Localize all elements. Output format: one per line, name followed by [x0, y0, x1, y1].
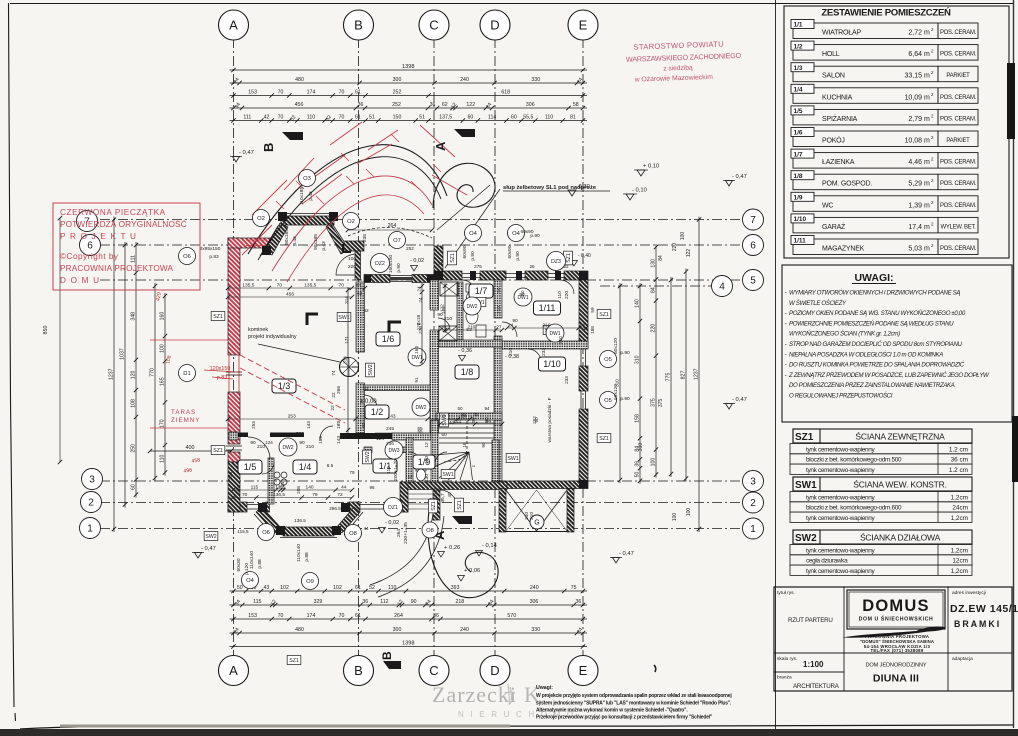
svg-text:330: 330	[531, 77, 540, 83]
door swing arcs interior	[320, 426, 333, 439]
svg-text:300: 300	[393, 77, 402, 83]
svg-text:498: 498	[183, 467, 193, 474]
svg-text:p.90: p.90	[470, 251, 476, 261]
svg-text:C: C	[429, 18, 438, 33]
svg-text:tynk cementowo-wapienny: tynk cementowo-wapienny	[806, 494, 876, 501]
wall tag SZ1 left upper	[211, 312, 225, 321]
grid axis dash-dot vertical lines	[233, 38, 235, 658]
svg-text:62: 62	[442, 102, 448, 108]
walls around wiatrolap	[406, 438, 413, 482]
svg-text:206: 206	[228, 472, 234, 480]
svg-text:6: 6	[750, 241, 756, 252]
toilet in wc 1/9	[416, 466, 426, 471]
svg-text:24cm: 24cm	[952, 505, 968, 512]
svg-text:5,29: 5,29	[908, 181, 922, 188]
svg-text:B: B	[261, 143, 276, 152]
left horizontal small dims	[150, 450, 231, 452]
svg-text:warstwa posadzki - F: warstwa posadzki - F	[547, 397, 553, 442]
svg-text:- 0,14: - 0,14	[482, 543, 498, 549]
svg-text:A: A	[229, 18, 238, 33]
svg-text:122: 122	[441, 306, 446, 314]
terrace canopy second arc	[258, 157, 441, 260]
right exterior wall SZ1	[579, 280, 588, 481]
svg-text:p.120: p.120	[244, 563, 250, 575]
room row 1/9 WC	[793, 196, 938, 212]
svg-text:Uwagi:: Uwagi:	[536, 685, 553, 691]
svg-text:TARAS: TARAS	[171, 409, 196, 416]
svg-text:m: m	[924, 30, 930, 37]
svg-text:DZ3: DZ3	[551, 259, 561, 265]
svg-text:61: 61	[355, 613, 361, 619]
svg-text:- 0,02: - 0,02	[385, 520, 399, 526]
svg-text:ZIEMNY: ZIEMNY	[171, 417, 200, 424]
svg-text:102: 102	[333, 585, 342, 591]
svg-text:458: 458	[191, 457, 201, 464]
svg-text:D: D	[490, 663, 499, 678]
svg-text:240: 240	[530, 585, 539, 591]
wall tag SZ1 left lower	[211, 446, 225, 455]
svg-text:SZ1: SZ1	[450, 253, 456, 263]
window in left red top wall	[246, 239, 266, 241]
svg-text:143: 143	[388, 414, 396, 420]
svg-text:70: 70	[278, 613, 284, 619]
svg-text:DW1: DW1	[549, 331, 560, 337]
svg-text:PARKIET: PARKIET	[946, 138, 970, 144]
svg-text:210: 210	[542, 323, 550, 329]
svg-text:SZ1: SZ1	[566, 253, 572, 263]
svg-text:1,2cm: 1,2cm	[951, 515, 968, 522]
svg-text:+ 0,10: + 0,10	[643, 164, 659, 170]
svg-text:+ 0,06: + 0,06	[464, 568, 480, 574]
svg-text:SZ1: SZ1	[213, 314, 223, 320]
svg-text:5: 5	[750, 276, 756, 287]
svg-text:- 0,47: - 0,47	[239, 150, 254, 156]
svg-text:252: 252	[406, 246, 414, 251]
svg-text:100: 100	[686, 508, 692, 517]
svg-text:22: 22	[331, 392, 336, 398]
svg-text:POS. CERAM.: POS. CERAM.	[940, 95, 977, 101]
pokoj 1/6 top exterior wall	[364, 275, 390, 283]
svg-text:p.43: p.43	[308, 191, 314, 201]
svg-text:PARKIET: PARKIET	[946, 73, 970, 79]
svg-text:projekt indywidualny: projekt indywidualny	[248, 334, 297, 340]
top dim row axes	[230, 82, 588, 84]
terrace canopy red arc 1	[272, 176, 432, 271]
svg-text:35,7: 35,7	[440, 493, 446, 503]
svg-text:ŁAZIENKA: ŁAZIENKA	[822, 159, 855, 166]
svg-text:PRACOWNIA PROJEKTOWA: PRACOWNIA PROJEKTOWA	[60, 264, 174, 273]
red correction strokes over arcs	[252, 180, 287, 215]
svg-text:210: 210	[508, 348, 514, 356]
terrace canopy red arc 2	[287, 195, 424, 282]
svg-text:ŚCIANKA DZIAŁOWA: ŚCIANKA DZIAŁOWA	[860, 532, 941, 543]
svg-text:252: 252	[393, 90, 402, 96]
svg-text:75: 75	[571, 585, 577, 591]
svg-text:618: 618	[501, 90, 510, 96]
svg-text:ŚCIANA WEW. KONSTR.: ŚCIANA WEW. KONSTR.	[853, 479, 947, 490]
svg-text:266: 266	[336, 386, 342, 394]
svg-text:50: 50	[520, 290, 525, 296]
svg-text:SALON: SALON	[822, 73, 845, 80]
svg-text:- 0,36: - 0,36	[458, 348, 472, 354]
svg-text:252: 252	[532, 416, 537, 424]
svg-text:775: 775	[666, 373, 672, 382]
svg-text:188: 188	[590, 326, 595, 334]
svg-text:50: 50	[496, 287, 501, 293]
svg-text:827: 827	[681, 371, 687, 380]
svg-text:375: 375	[658, 399, 664, 408]
svg-text:SZ1: SZ1	[213, 448, 223, 454]
svg-text:1/5: 1/5	[244, 462, 257, 472]
svg-text:110: 110	[545, 115, 553, 121]
svg-text:153: 153	[248, 613, 257, 619]
svg-text:DIUNA III: DIUNA III	[873, 673, 919, 685]
interior dim rows	[228, 287, 365, 289]
svg-text:DW1: DW1	[411, 355, 422, 361]
svg-text:1/11: 1/11	[539, 303, 556, 313]
svg-text:50: 50	[635, 472, 641, 478]
svg-text:393: 393	[451, 585, 460, 591]
wall tag SW2 pokoj	[366, 363, 375, 377]
svg-text:- 0,10: - 0,10	[632, 188, 647, 194]
column curl spiral top (circular stair tower)	[433, 163, 495, 208]
kitchen top beam solid	[238, 433, 248, 438]
svg-text:200+1=20: 200+1=20	[393, 459, 399, 481]
bottom exterior wall with openings	[228, 462, 408, 512]
svg-text:33,15: 33,15	[904, 73, 922, 80]
svg-text:1/10: 1/10	[543, 359, 561, 369]
wall type table SZ1	[793, 429, 972, 443]
svg-text:1398: 1398	[402, 64, 414, 70]
svg-text:1: 1	[87, 524, 93, 535]
svg-text:590: 590	[296, 431, 304, 436]
bottom dim total 1398	[230, 646, 588, 648]
bottom dim row 2	[230, 604, 588, 606]
entry door stub and opening	[433, 489, 440, 520]
svg-text:55,5: 55,5	[523, 115, 533, 121]
svg-text:60x90: 60x90	[507, 245, 513, 258]
page border frame	[10, 3, 1014, 5]
svg-text:264: 264	[388, 223, 397, 229]
room label 1/3 salon	[272, 379, 296, 393]
svg-text:329: 329	[314, 599, 323, 605]
svg-text:O8: O8	[349, 531, 357, 537]
svg-text:114: 114	[488, 115, 496, 121]
bay window glazing lines	[260, 214, 351, 257]
svg-text:1.2 cm: 1.2 cm	[949, 467, 968, 474]
svg-text:GARAŻ: GARAŻ	[822, 222, 846, 231]
section marker B bottom	[380, 651, 401, 669]
windows O5 in right wall	[580, 348, 582, 366]
svg-text:tynk cementowo-wapienny: tynk cementowo-wapienny	[806, 467, 876, 474]
svg-text:Przekroje przewodów przyjąć po: Przekroje przewodów przyjąć po konsultac…	[536, 715, 713, 721]
red stamp box copyright pracownia	[53, 203, 200, 290]
svg-text:bloczki z bet. komórkowego-odm: bloczki z bet. komórkowego-odm.500	[806, 457, 902, 464]
staircase winder	[429, 421, 494, 480]
svg-text:RZUT PARTERU: RZUT PARTERU	[788, 617, 833, 624]
svg-text:42: 42	[363, 386, 369, 392]
svg-text:1/11: 1/11	[794, 238, 807, 245]
svg-text:24: 24	[437, 261, 443, 266]
svg-text:O2: O2	[347, 219, 355, 225]
svg-text:O8: O8	[426, 528, 434, 534]
svg-text:306: 306	[526, 102, 535, 108]
svg-text:adres inwestycji: adres inwestycji	[952, 590, 986, 596]
svg-text:DZ2: DZ2	[375, 261, 385, 267]
interior wall bathroom right SW2	[457, 282, 463, 340]
wall type table SW2	[793, 530, 972, 544]
svg-text:1/5: 1/5	[794, 108, 803, 115]
svg-text:24: 24	[461, 414, 467, 420]
svg-text:94: 94	[484, 406, 490, 411]
door bubbles DW	[408, 348, 426, 366]
svg-text:WYLEW. BET.: WYLEW. BET.	[940, 224, 976, 230]
svg-text:1.2 cm: 1.2 cm	[949, 446, 968, 453]
svg-text:122: 122	[686, 249, 692, 258]
svg-text:220: 220	[348, 264, 356, 270]
svg-text:36: 36	[635, 461, 641, 467]
interior wall corridor left SW1	[430, 280, 439, 310]
svg-text:102: 102	[280, 585, 289, 591]
svg-text:250: 250	[131, 444, 137, 453]
svg-text:POS. CERAM.: POS. CERAM.	[940, 181, 977, 187]
svg-text:D1: D1	[183, 371, 190, 377]
svg-text:218: 218	[456, 599, 465, 605]
svg-text:SZ1: SZ1	[431, 501, 437, 511]
svg-text:m: m	[924, 246, 930, 253]
svg-text:94: 94	[486, 419, 492, 425]
right dim chain 1	[639, 283, 641, 484]
svg-text:110x185: 110x185	[299, 187, 305, 205]
svg-text:210: 210	[467, 325, 475, 331]
svg-text:165: 165	[160, 377, 166, 386]
svg-text:90x185: 90x185	[284, 229, 290, 245]
svg-text:POS. CERAM.: POS. CERAM.	[940, 160, 977, 166]
svg-text:m: m	[924, 138, 930, 145]
bay corner block right	[344, 241, 364, 251]
svg-text:2: 2	[750, 498, 756, 509]
svg-text:245: 245	[386, 426, 394, 432]
svg-text:233: 233	[541, 348, 547, 356]
room schedule table ZESTAWIENIE POMIESZCZEN	[784, 6, 1009, 258]
interior wall SW1 between salon and pokoj	[356, 282, 365, 352]
svg-text:10,08: 10,08	[904, 138, 922, 145]
DOMUS logo	[847, 590, 945, 629]
svg-text:DW2: DW2	[466, 304, 477, 310]
right dim 775	[670, 277, 672, 477]
wall between spizarnia and kuchnia	[268, 458, 274, 504]
room label 1/6	[376, 332, 400, 346]
svg-text:- 0,40: - 0,40	[578, 253, 591, 259]
svg-text:22: 22	[563, 264, 569, 269]
svg-text:40: 40	[447, 492, 453, 498]
svg-text:115.5: 115.5	[237, 529, 249, 534]
svg-text:tytuł rys.: tytuł rys.	[777, 590, 795, 596]
entry walkway curved path	[370, 514, 433, 585]
svg-text:DW2: DW2	[282, 445, 293, 451]
svg-text:70: 70	[339, 90, 345, 96]
svg-text:adaptacja: adaptacja	[952, 656, 973, 662]
bottom dim row 3	[230, 618, 588, 620]
svg-text:E: E	[579, 663, 588, 678]
svg-text:210: 210	[558, 336, 563, 344]
windows in bottom wall	[247, 504, 266, 506]
svg-text:348: 348	[131, 312, 137, 321]
svg-text:m: m	[924, 181, 930, 188]
svg-text:112: 112	[380, 599, 388, 605]
top dim row openings	[230, 120, 588, 122]
svg-text:z siedzibą: z siedzibą	[663, 65, 693, 73]
svg-text:115: 115	[253, 599, 261, 605]
svg-text:81: 81	[570, 115, 576, 121]
garage bottom exterior wall	[499, 481, 588, 489]
svg-text:p.90: p.90	[620, 350, 630, 356]
svg-text:210: 210	[306, 444, 314, 450]
svg-text:4,46: 4,46	[908, 159, 922, 166]
bottom dim row openings	[230, 590, 588, 592]
wall tag SZ1 bottom entry	[429, 499, 438, 513]
svg-text:230+1=35: 230+1=35	[403, 522, 409, 544]
room label 1/8	[455, 365, 479, 379]
svg-text:122: 122	[466, 102, 475, 108]
wall tag SW1 stairs	[441, 470, 455, 479]
svg-text:m: m	[924, 51, 930, 58]
svg-text:14: 14	[517, 480, 523, 485]
svg-text:DZ.EW 145/16: DZ.EW 145/16	[950, 603, 1018, 615]
bottom scan bar	[20, 725, 1013, 729]
wall tag SZ1 right lower	[597, 434, 611, 443]
svg-text:208: 208	[296, 486, 301, 494]
svg-text:bloczki z bet. komórkowego-odm: bloczki z bet. komórkowego-odm.600	[806, 505, 902, 512]
svg-text:330: 330	[531, 627, 540, 633]
red stamp starostwo powiatu	[625, 39, 742, 84]
svg-text:16: 16	[462, 442, 467, 448]
svg-text:ŚCIANA ZEWNĘTRZNA: ŚCIANA ZEWNĘTRZNA	[855, 431, 945, 442]
svg-text:100: 100	[672, 513, 678, 522]
svg-text:36 cm: 36 cm	[951, 457, 968, 464]
svg-text:3: 3	[89, 475, 95, 486]
stray pen mark	[654, 665, 656, 672]
svg-text:296.5: 296.5	[329, 506, 341, 511]
int v 310 right	[619, 283, 621, 483]
svg-text:O6: O6	[183, 254, 191, 260]
wall tag SZ1 bottom left	[287, 656, 301, 665]
wall tag SW1 magazynek	[543, 326, 557, 335]
svg-text:50: 50	[237, 585, 243, 591]
svg-text:44: 44	[363, 526, 369, 531]
svg-text:120: 120	[131, 370, 137, 379]
svg-text:264: 264	[394, 613, 403, 619]
bay window bottom walls	[254, 503, 363, 538]
svg-text:m: m	[924, 202, 930, 209]
svg-text:90: 90	[481, 442, 486, 448]
top dim total 1398	[230, 69, 588, 71]
svg-text:- 0,47: - 0,47	[619, 551, 634, 557]
room label 1/9	[413, 455, 435, 469]
right dim chain 2	[655, 244, 657, 478]
svg-text:Z ZEWNĄTRZ PRZEWODEM W POSADZC: Z ZEWNĄTRZ PRZEWODEM W POSADZCE, LUB ZAP…	[788, 372, 990, 379]
svg-text:1/2: 1/2	[371, 407, 384, 417]
left dim chain 2	[164, 293, 166, 476]
wall tag SW1 corridor	[472, 298, 486, 307]
svg-text:WYMIARY OTWORÓW OKIENNYCH I DR: WYMIARY OTWORÓW OKIENNYCH I DRZWIOWYCH P…	[789, 290, 960, 297]
porch dashed canopy arc 264	[348, 227, 432, 238]
svg-text:± 0,00: ± 0,00	[360, 399, 377, 405]
top dim row 3	[230, 95, 588, 97]
svg-text:61: 61	[355, 115, 361, 121]
svg-text:1/7: 1/7	[475, 286, 488, 296]
svg-text:100: 100	[160, 344, 166, 353]
svg-text:850: 850	[43, 326, 49, 335]
svg-text:275: 275	[474, 264, 482, 269]
svg-text:130: 130	[424, 474, 430, 482]
svg-text:DW3: DW3	[388, 448, 399, 454]
svg-text:137,5: 137,5	[439, 115, 452, 121]
svg-text:P R O J E K T U: P R O J E K T U	[60, 232, 137, 241]
svg-text:44: 44	[341, 485, 347, 491]
svg-text:124: 124	[265, 440, 273, 445]
svg-text:136.5: 136.5	[294, 518, 306, 523]
svg-text:70: 70	[278, 115, 284, 121]
wall tag SW2 left bottom	[204, 532, 218, 541]
top dim row 4	[230, 107, 588, 109]
svg-text:DOM JEDNORODZINNY: DOM JEDNORODZINNY	[865, 663, 926, 669]
svg-text:A: A	[433, 141, 448, 151]
svg-text:233: 233	[564, 376, 569, 384]
svg-text:3: 3	[750, 477, 756, 488]
svg-text:240: 240	[460, 77, 469, 83]
svg-text:2,79: 2,79	[908, 116, 922, 123]
svg-text:SZ1: SZ1	[289, 658, 299, 664]
svg-text:27: 27	[496, 325, 502, 331]
svg-text:1/7: 1/7	[794, 151, 803, 158]
svg-text:210: 210	[529, 512, 535, 520]
svg-text:B: B	[354, 663, 363, 678]
svg-text:1/2: 1/2	[794, 43, 803, 50]
svg-text:p.90: p.90	[530, 233, 540, 239]
svg-text:2: 2	[88, 498, 94, 509]
svg-text:70: 70	[339, 613, 345, 619]
svg-text:1/6: 1/6	[382, 334, 395, 344]
svg-text:253: 253	[288, 414, 296, 420]
svg-text:22: 22	[330, 405, 336, 411]
magazynek bottom wall	[502, 341, 588, 349]
svg-text:36: 36	[433, 613, 439, 619]
porch west wall	[355, 251, 361, 280]
svg-text:110: 110	[307, 115, 315, 121]
opening left wall lower	[226, 445, 242, 447]
svg-text:tynk cementowo-wapienny: tynk cementowo-wapienny	[806, 568, 876, 575]
svg-text:61: 61	[355, 90, 361, 96]
svg-text:60: 60	[131, 484, 137, 490]
svg-text:- 0,02: - 0,02	[410, 258, 424, 264]
svg-text:60x90: 60x90	[462, 245, 468, 258]
wall tag SZ1 bottom entry2	[455, 498, 464, 512]
svg-text:SZ1: SZ1	[599, 312, 609, 318]
pom gospod top wall	[439, 340, 503, 347]
svg-text:D: D	[490, 18, 499, 33]
svg-text:O4: O4	[246, 578, 255, 584]
svg-text:90x185: 90x185	[313, 234, 319, 250]
svg-text:110x140: 110x140	[296, 544, 302, 562]
svg-text:115: 115	[251, 485, 259, 491]
svg-text:130: 130	[651, 259, 657, 268]
room row 1/8 POM. GOSPOD.	[793, 174, 938, 190]
svg-text:70: 70	[242, 492, 248, 498]
svg-text:170: 170	[160, 419, 166, 428]
garage driveway ramp	[499, 489, 574, 533]
exterior wall left (red modification) SZ1	[228, 238, 272, 462]
